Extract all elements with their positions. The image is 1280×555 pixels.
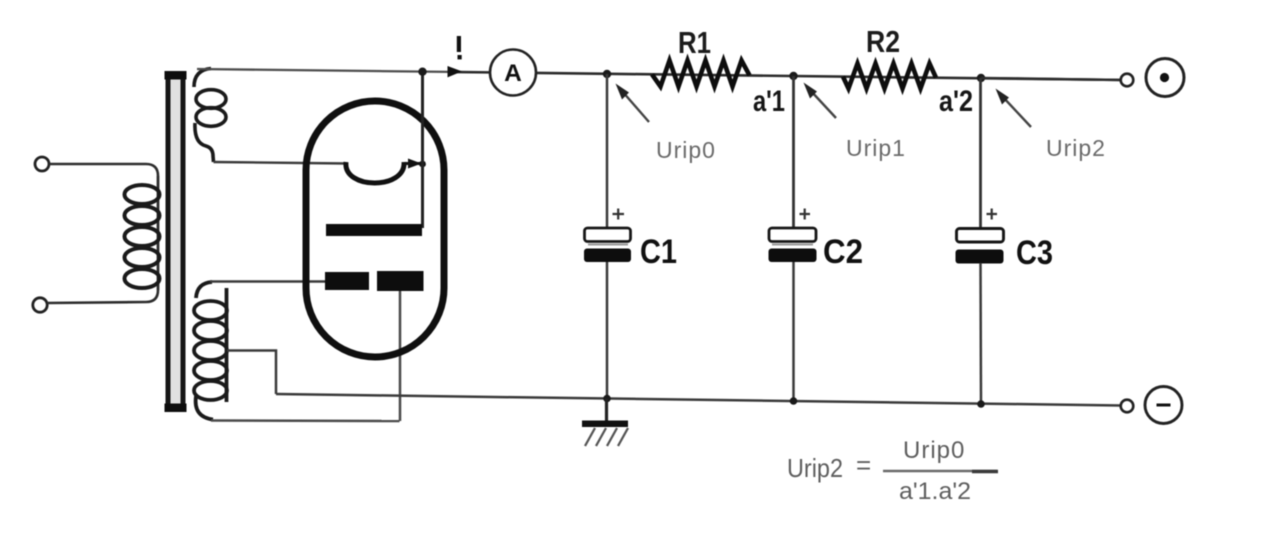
tube anode A2 (right plate) bbox=[377, 271, 424, 291]
svg-text:A: A bbox=[504, 60, 522, 87]
arrow Urip0 bbox=[616, 84, 650, 123]
node: C1 on rail bbox=[603, 395, 611, 403]
wire: a'1 down to C2 bbox=[792, 76, 795, 228]
node: junction of cathode line on top wire bbox=[418, 68, 426, 76]
transformer primary winding L1 (5 loops) bbox=[125, 185, 160, 288]
wire: primary spine bbox=[157, 176, 160, 290]
wire: right anode down to HT bottom end bbox=[399, 290, 402, 421]
wire: HT center tap to bottom rail bbox=[227, 351, 276, 395]
arrow Urip1 bbox=[804, 83, 837, 119]
resistor R2 bbox=[843, 64, 936, 89]
wire: filament right end to cathode node bbox=[404, 162, 421, 165]
wire: primary bottom to J2 bbox=[47, 290, 158, 303]
open circle before + terminal bbox=[1121, 74, 1134, 87]
svg-text:a'2: a'2 bbox=[939, 85, 973, 118]
svg-text:Urip0: Urip0 bbox=[903, 437, 965, 464]
tube cathode plate bbox=[326, 224, 422, 236]
node a'2 bbox=[977, 74, 985, 82]
wire: a'2 to + terminal bbox=[981, 78, 1121, 80]
transformer core bbox=[165, 71, 187, 412]
input terminal J2 (bottom left) bbox=[33, 298, 47, 312]
wire: filament winding to tube filament bbox=[214, 162, 348, 164]
node a'1 bbox=[789, 72, 797, 80]
current arrow I on top wire bbox=[448, 66, 463, 77]
resistor R1 bbox=[652, 61, 750, 87]
svg-text:C2: C2 bbox=[823, 233, 863, 271]
svg-text:Urip0: Urip0 bbox=[656, 137, 716, 163]
wire: cathode line (top wire junction down to cathode plate) bbox=[421, 72, 424, 229]
wire: J1 to primary top bbox=[49, 164, 158, 176]
formula fraction bar bbox=[883, 470, 997, 473]
svg-text:C1: C1 bbox=[640, 233, 677, 271]
formula Urip2 = Urip0 / a'1.a'2 bbox=[787, 437, 971, 505]
svg-text:C3: C3 bbox=[1016, 234, 1053, 272]
svg-text:R1: R1 bbox=[678, 25, 711, 60]
input terminal J1 (top left) bbox=[35, 157, 49, 171]
node 0 (rectifier output) bbox=[603, 70, 611, 78]
svg-text:Urip1: Urip1 bbox=[846, 135, 906, 161]
output terminal + bbox=[1146, 59, 1184, 97]
output terminal - bbox=[1145, 387, 1182, 424]
top wire: main HT+ rail bbox=[197, 69, 449, 72]
capacitor C2 bbox=[769, 209, 817, 263]
arrowhead at filament right end bbox=[408, 159, 422, 169]
rectifier tube V1 envelope bbox=[306, 101, 444, 357]
svg-text:a'1: a'1 bbox=[753, 85, 785, 118]
open circle before - terminal bbox=[1121, 400, 1134, 413]
label I bbox=[457, 36, 462, 59]
svg-text:R2: R2 bbox=[866, 24, 900, 59]
ammeter A1 bbox=[490, 50, 536, 96]
svg-text:=: = bbox=[856, 450, 871, 480]
wire: HT bottom end bbox=[211, 419, 400, 422]
node: cathode junction in tube bbox=[419, 161, 426, 168]
wire: node0 down to C1 bbox=[606, 74, 609, 228]
node: C3 on rail bbox=[977, 400, 985, 408]
capacitor C3 bbox=[956, 209, 1004, 264]
svg-text:a'1.a'2: a'1.a'2 bbox=[899, 478, 971, 505]
tube anode A1 (left plate) bbox=[325, 272, 369, 290]
wire: C2 down to rail bbox=[792, 262, 795, 401]
capacitor C1 bbox=[584, 209, 631, 263]
ground symbol bbox=[582, 399, 628, 447]
wire: C3 down to rail bbox=[979, 263, 982, 404]
tube filament (heater arc) bbox=[346, 162, 404, 183]
node: C2 on rail bbox=[790, 397, 798, 405]
bottom rail (0 V) bbox=[276, 394, 1121, 406]
wire: C1 down to rail bbox=[606, 262, 609, 399]
wire: HT top end to left anode bbox=[210, 280, 330, 283]
svg-text:Urip2: Urip2 bbox=[1046, 135, 1106, 161]
transformer HT winding L3 (bottom secondary, 5 loops) bbox=[194, 282, 227, 420]
wire: a'2 down to C3 bbox=[979, 78, 982, 228]
svg-text:Urip2: Urip2 bbox=[787, 453, 843, 483]
arrow Urip2 bbox=[996, 89, 1032, 128]
transformer filament winding L2 (top secondary, 2 loops) bbox=[194, 69, 226, 163]
